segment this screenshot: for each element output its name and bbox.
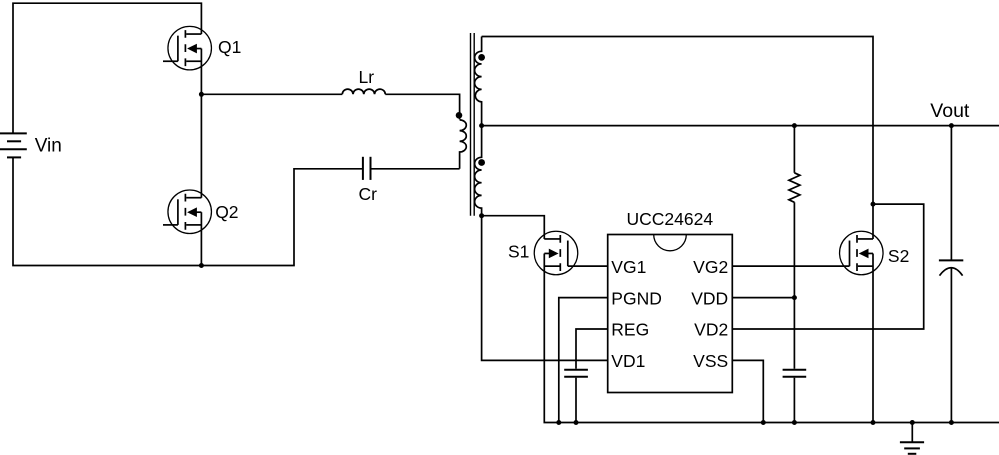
svg-text:VG2: VG2 [693,257,728,277]
svg-text:S2: S2 [888,246,909,266]
wire: secondary bottom to VD1 pin [482,216,608,361]
transistor Q2 [163,190,211,234]
node: S2 source ground junction [871,420,876,425]
svg-text:VG1: VG1 [611,257,646,277]
node: VDD junction [792,295,797,300]
ground symbol [900,423,924,454]
svg-text:VD2: VD2 [694,320,728,340]
battery V1 Vin [0,133,27,157]
svg-text:VD1: VD1 [611,351,645,371]
node: secondary bottom polarity dot [478,159,485,166]
wire: Cr to transformer primary bottom [371,168,460,170]
svg-text:Cr: Cr [359,184,378,204]
wire: secondary top to S2 drain [482,37,873,239]
wire: VSS pin to ground rail [732,360,763,422]
wire: VD2 pin to S2 drain sense [732,204,923,329]
wire: Vout rail to resistor R1 [793,126,795,173]
wire: Vout rail to output cap [950,126,952,261]
wire: REG pin to bypass cap [576,329,608,369]
node: Q2 source / bottom rail junction [199,263,204,268]
svg-text:Q1: Q1 [218,37,241,57]
capacitor C-out polarized [939,260,963,275]
svg-text:REG: REG [611,320,649,340]
wire: resistor to VDD node to cap [793,202,795,368]
svg-text:Lr: Lr [359,67,375,87]
node: center tap junction [479,123,484,128]
capacitor Cr [363,157,371,180]
IC U1 UCC24624 body [608,235,733,393]
svg-text:S1: S1 [508,241,529,261]
transistor S1 [534,231,607,275]
wire: Vin- down and bottom-left rail to Cr branch [13,157,363,265]
wire: Q2 source to bottom rail [200,212,202,265]
wire: Q1 source to Q2 drain [200,49,202,198]
node: S2 drain / VD2 junction [871,202,876,207]
node: Vout rail resistor junction [792,123,797,128]
svg-text:Vout: Vout [930,100,970,122]
svg-text:Vin: Vin [35,136,62,157]
svg-text:PGND: PGND [611,288,662,308]
node: VSS ground junction [761,420,766,425]
svg-text:UCC24624: UCC24624 [627,209,714,229]
node: secondary bottom junction [479,213,484,218]
node: Vout rail output cap junction [949,123,954,128]
wire: midpoint to Lr [201,93,342,95]
capacitor C-VDD [783,370,807,377]
wire: S1 source down and bottom ground rail [544,253,999,422]
wire: Vin+ top rail to Q1 drain [13,3,201,133]
node: PGND ground junction [556,420,561,425]
node: primary polarity dot [456,112,463,119]
node: ground rail junction [910,420,915,425]
svg-text:VDD: VDD [691,288,728,308]
node: output cap ground junction [949,420,954,425]
wire: PGND pin to ground rail [559,298,608,423]
capacitor C-REG [564,370,588,377]
transformer T1 secondary windings [475,37,482,216]
node: REG cap ground junction [574,420,579,425]
transistor Q1 [163,26,211,70]
inductor Lr [342,89,385,94]
transformer T1 core [471,33,475,216]
wire: center tap Vout rail [482,125,999,127]
transformer T1 primary winding [460,120,467,169]
svg-text:Q2: Q2 [215,202,238,222]
node: VDD cap ground junction [792,420,797,425]
wire: REG cap to ground rail [575,378,577,423]
node: secondary top polarity dot [478,54,485,61]
wire: output cap to ground rail [950,268,952,423]
wire: VDD pin to RC node [732,297,794,299]
wire: S2 source to ground rail [872,253,874,422]
transistor S2 [732,231,883,275]
svg-text:VSS: VSS [693,351,728,371]
wire: VDD cap to ground rail [793,378,795,423]
wire: secondary bottom to S1 drain [482,216,545,239]
wire: Lr to transformer primary top [385,94,459,119]
node: half-bridge midpoint [199,92,204,97]
resistor R1 [789,173,800,203]
